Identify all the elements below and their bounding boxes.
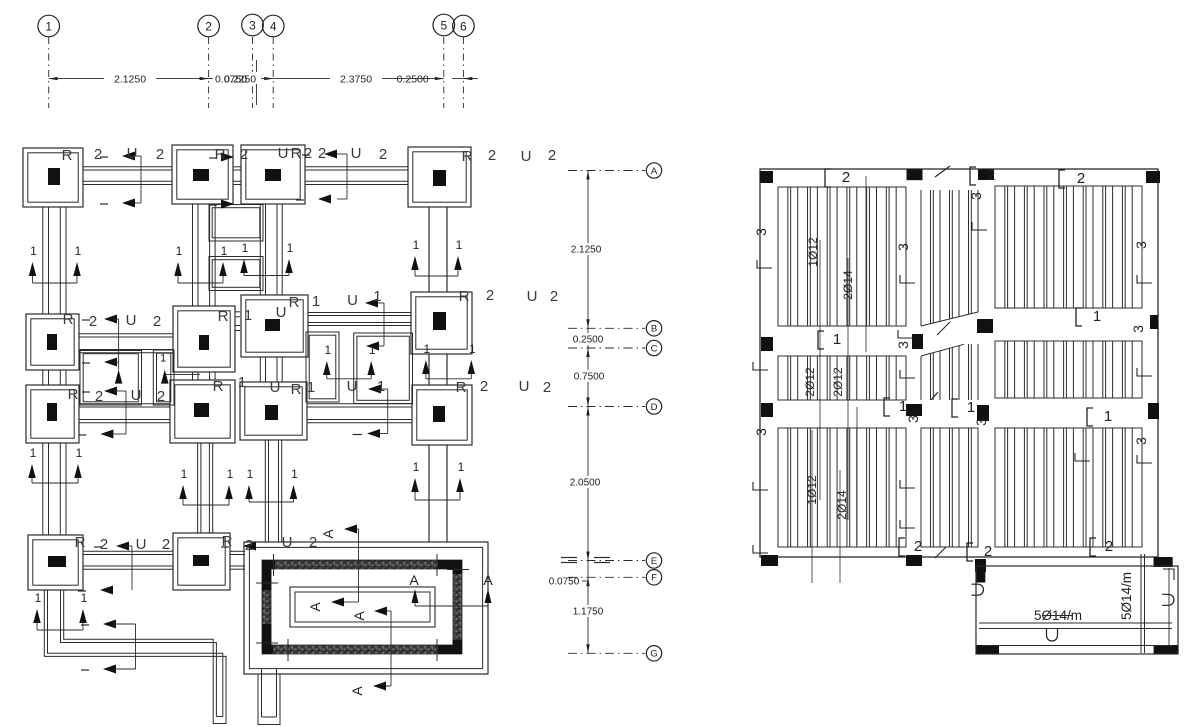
- svg-text:3: 3: [905, 415, 921, 423]
- dashed arrow B-D left: [82, 358, 118, 367]
- svg-text:5: 5: [440, 18, 447, 32]
- footing F14 (E-2): [173, 533, 230, 590]
- duct from footing F13 (L-shaped): [44, 590, 226, 724]
- svg-text:2: 2: [156, 146, 164, 163]
- section A line 1: [307, 525, 359, 612]
- svg-text:1: 1: [76, 446, 83, 460]
- svg-text:2Ø12: 2Ø12: [831, 367, 845, 397]
- section marks 1-1 D-E col1: [28, 446, 82, 483]
- svg-text:U: U: [136, 536, 147, 553]
- beam col2 A-B: [193, 204, 216, 306]
- svg-text:1: 1: [176, 244, 183, 258]
- svg-text:4: 4: [270, 19, 277, 33]
- svg-text:2: 2: [205, 19, 212, 33]
- section marks 1-1 D-E col2: [179, 467, 233, 505]
- svg-text:2: 2: [162, 536, 170, 553]
- svg-text:3: 3: [973, 418, 989, 426]
- section marks 1-1 below E col1: [33, 591, 87, 630]
- beam labels R/U left plan: [62, 145, 559, 554]
- footing F3 (A-3): [241, 145, 305, 204]
- column C12: [433, 406, 445, 422]
- column C13: [48, 556, 66, 567]
- slab panel P2 stair flight upper: [921, 190, 978, 326]
- svg-text:2: 2: [94, 146, 102, 163]
- svg-text:2: 2: [153, 313, 161, 330]
- column S-B2: [912, 334, 923, 349]
- svg-text:2: 2: [984, 543, 992, 560]
- section line 2 row A col3-4: [296, 150, 347, 204]
- slash marks: [931, 166, 950, 558]
- svg-text:2.0500: 2.0500: [570, 478, 601, 489]
- column C11: [265, 405, 278, 420]
- svg-text:U: U: [276, 304, 287, 321]
- slab panel P5 stair flight lower: [921, 344, 978, 400]
- column S-B4: [1150, 315, 1158, 329]
- section marks 1-1 A-B col2: [174, 244, 227, 283]
- svg-text:2: 2: [486, 287, 494, 304]
- svg-text:0.2250: 0.2250: [224, 74, 256, 86]
- svg-text:1: 1: [456, 238, 463, 252]
- svg-text:A: A: [409, 572, 419, 588]
- column C8: [433, 312, 446, 330]
- tank wall black corner segments: [262, 560, 271, 590]
- tank thick wall ring: [262, 560, 462, 654]
- svg-text:R: R: [218, 308, 229, 325]
- column C2: [193, 169, 209, 181]
- column C6: [199, 335, 209, 350]
- svg-text:R: R: [291, 381, 302, 398]
- footing F9 (D-1): [26, 385, 79, 443]
- footing F6 (B-2): [173, 306, 235, 372]
- svg-text:2: 2: [1105, 538, 1113, 555]
- beam col1 D-E: [43, 443, 66, 535]
- grid bubble C: [646, 340, 661, 355]
- beam box B-D span col1-2: [80, 351, 142, 406]
- svg-text:3: 3: [753, 428, 769, 436]
- svg-text:A: A: [351, 611, 367, 621]
- svg-text:R: R: [63, 311, 74, 328]
- svg-text:3: 3: [1133, 437, 1149, 445]
- svg-text:3: 3: [753, 228, 769, 236]
- slab panel P9 with rib hatch: [995, 428, 1142, 547]
- dimension text 2.0500: [566, 476, 606, 488]
- footing F2 (A-2): [172, 145, 233, 204]
- svg-text:1: 1: [377, 378, 385, 395]
- svg-text:1: 1: [1104, 408, 1112, 425]
- svg-text:B: B: [651, 324, 657, 335]
- svg-text:R: R: [459, 288, 470, 305]
- svg-text:2: 2: [914, 538, 922, 555]
- footing F10 (D-2): [170, 380, 235, 443]
- footing F13 (E-1): [28, 535, 83, 590]
- svg-text:1: 1: [247, 467, 254, 481]
- svg-text:2: 2: [304, 145, 312, 162]
- svg-text:U: U: [278, 145, 289, 162]
- beam box B-D span col3-4: [354, 333, 413, 404]
- svg-text:U: U: [347, 378, 358, 395]
- slab panel P1 with rib hatch: [778, 187, 906, 326]
- extension reinforcement lines: [979, 554, 1172, 653]
- footing F12 (D-5): [412, 385, 472, 445]
- footing F8 (B-5): [411, 292, 472, 354]
- svg-text:A: A: [320, 529, 336, 539]
- section A-A horizontal cut: [409, 572, 493, 606]
- section line 2 row B col1: [82, 315, 119, 370]
- svg-text:0.0750: 0.0750: [549, 577, 580, 588]
- column C14: [193, 555, 209, 566]
- column S-ext1: [976, 645, 999, 654]
- beam col4 D-tank: [429, 445, 447, 542]
- column S-D3: [977, 405, 989, 421]
- svg-text:1: 1: [424, 342, 431, 356]
- section line 1 row D col3 lower: [353, 385, 388, 439]
- footing F11 (D-3): [240, 382, 307, 440]
- svg-text:R: R: [289, 294, 300, 311]
- grid bubble 5: [433, 14, 455, 36]
- svg-text:3: 3: [895, 341, 911, 349]
- svg-text:U: U: [521, 148, 532, 165]
- svg-text:2: 2: [240, 146, 248, 163]
- svg-text:1: 1: [30, 244, 37, 258]
- grid bubble F: [646, 570, 661, 585]
- svg-text:R: R: [68, 386, 79, 403]
- svg-text:2: 2: [309, 534, 317, 551]
- dimension text 0.0750 / 0.2250 overlapped: [213, 72, 261, 84]
- svg-text:5Ø14/m: 5Ø14/m: [1119, 572, 1134, 620]
- column S-A1: [760, 171, 773, 183]
- rotated 3 labels: [753, 192, 1149, 445]
- svg-text:R: R: [456, 379, 467, 396]
- svg-text:3: 3: [1133, 241, 1149, 249]
- dimension text 0.7500: [570, 370, 608, 382]
- dimension text 2.3750: [330, 72, 382, 84]
- section marks 1-1 A-B col1: [29, 244, 82, 283]
- extension slab outline: [976, 566, 1178, 654]
- section line 2 row A col2 (right pointing arrows): [209, 153, 234, 209]
- grid bubble 3: [242, 14, 264, 36]
- column C9: [47, 403, 57, 421]
- svg-text:R: R: [215, 146, 226, 163]
- column C1: [48, 168, 60, 185]
- grid line F: [568, 576, 645, 578]
- section marks 1-1 B-D col4: [422, 342, 476, 379]
- svg-text:2: 2: [480, 378, 488, 395]
- svg-text:1: 1: [244, 307, 252, 324]
- footing F7 (B-3): [241, 295, 308, 357]
- beam col1 A-B: [43, 207, 66, 314]
- column S-ext2: [1154, 645, 1179, 654]
- beam col2 D-E: [198, 443, 213, 533]
- svg-text:1: 1: [238, 374, 246, 391]
- extension inner bottom line: [982, 645, 1172, 647]
- svg-text:1: 1: [899, 398, 907, 415]
- svg-text:2: 2: [245, 537, 253, 554]
- tank outer boundary: [244, 542, 488, 674]
- beam col4 A-B: [429, 207, 447, 292]
- footing F1 (A-1): [23, 148, 83, 207]
- bar leader lines: [812, 176, 866, 583]
- tank wall ticks: [273, 554, 275, 576]
- column S-D2: [906, 404, 922, 416]
- grid bubble B: [646, 321, 661, 336]
- dimension text 0.2500: [569, 333, 607, 345]
- section line 2 row A col1-2: [100, 152, 141, 208]
- beam E row 1-2: [83, 551, 173, 569]
- beam A row 1-2: [83, 167, 172, 185]
- dimension text 2.1250: [104, 72, 156, 84]
- beam B row 1-2: [79, 334, 173, 353]
- beam stub F6-F7: [235, 312, 240, 331]
- beam box B-D span col2-3b: [306, 332, 339, 402]
- slab rib labels with brackets: [818, 167, 1113, 561]
- beam col3 B-D: [260, 357, 282, 382]
- svg-text:1: 1: [181, 467, 188, 481]
- svg-text:R: R: [75, 534, 86, 551]
- grid bubble 2: [198, 15, 220, 37]
- svg-text:A: A: [349, 686, 365, 696]
- svg-text:A: A: [483, 572, 493, 588]
- svg-text:R: R: [222, 533, 233, 550]
- svg-text:R: R: [62, 147, 73, 164]
- svg-text:U: U: [127, 145, 138, 162]
- svg-text:2: 2: [379, 146, 387, 163]
- column S-B3: [977, 319, 993, 333]
- svg-text:D: D: [651, 402, 658, 413]
- svg-text:0.2500: 0.2500: [397, 74, 429, 86]
- beam box below grid 2-3 upper: [209, 205, 263, 242]
- slab panel P8 with rib hatch: [921, 428, 978, 547]
- column S-D1: [761, 403, 773, 417]
- svg-text:1: 1: [160, 353, 166, 365]
- footing F4 (A-5): [408, 147, 471, 207]
- column C5: [47, 334, 57, 350]
- svg-text:G: G: [650, 649, 657, 660]
- svg-text:1: 1: [45, 19, 52, 33]
- svg-text:2: 2: [95, 388, 103, 405]
- svg-text:1.1750: 1.1750: [573, 607, 604, 618]
- grid line D: [568, 406, 645, 408]
- section line 2 row E: [94, 542, 132, 591]
- slab panel P6 with rib hatch: [995, 341, 1142, 398]
- svg-text:2: 2: [1077, 170, 1085, 187]
- svg-text:U: U: [126, 312, 137, 329]
- svg-text:R: R: [462, 148, 473, 165]
- column S-extTL: [976, 559, 985, 583]
- svg-text:1: 1: [373, 288, 381, 305]
- svg-text:2.1250: 2.1250: [571, 245, 602, 256]
- svg-text:1: 1: [413, 238, 420, 252]
- tank inner basin: [290, 587, 435, 627]
- beam D row 3-4: [307, 404, 412, 423]
- svg-text:2.1250: 2.1250: [114, 74, 146, 86]
- svg-text:F: F: [651, 573, 657, 584]
- svg-text:1: 1: [967, 399, 975, 416]
- section marks 1-1 D-E col3: [245, 467, 298, 502]
- svg-text:A: A: [651, 166, 658, 177]
- svg-text:1: 1: [75, 244, 82, 258]
- section A line 2: [349, 607, 391, 696]
- svg-text:2: 2: [548, 147, 556, 164]
- svg-text:U: U: [347, 292, 358, 309]
- svg-text:2: 2: [543, 379, 551, 396]
- column C4: [433, 170, 446, 186]
- svg-text:0.7500: 0.7500: [574, 372, 605, 383]
- column S-E1: [761, 555, 778, 566]
- svg-text:2Ø14: 2Ø14: [841, 270, 855, 300]
- beam box B-D span narrow: [153, 350, 174, 405]
- dimension text 2.1250: [568, 243, 608, 255]
- svg-text:1: 1: [221, 244, 228, 258]
- svg-text:1: 1: [324, 343, 331, 357]
- svg-text:1: 1: [413, 460, 420, 474]
- column S-A3: [978, 170, 994, 181]
- top grid centerlines: [49, 37, 464, 108]
- column S-E2: [906, 555, 922, 566]
- svg-text:U: U: [282, 534, 293, 551]
- slab panel P4 with rib hatch: [778, 356, 906, 400]
- svg-text:1: 1: [833, 331, 841, 348]
- beam col1 B-D: [43, 370, 66, 385]
- extension bracket top right: [1163, 569, 1174, 580]
- section marks 1-1 A-B col4: [411, 238, 462, 276]
- section marks 1-1 A-B col3: [240, 241, 293, 276]
- svg-text:2: 2: [89, 313, 97, 330]
- double tick marks at grid E: [561, 557, 577, 559]
- slab plan outer boundary: [760, 169, 1158, 557]
- beam E row 2-tank: [230, 551, 245, 569]
- beam D row 1-2: [79, 404, 170, 423]
- dashed arrow row D col1: [82, 387, 126, 396]
- svg-text:1: 1: [227, 467, 234, 481]
- svg-text:2: 2: [157, 388, 165, 405]
- svg-text:1: 1: [1093, 308, 1101, 325]
- section line 1 row B col3 upper: [365, 299, 384, 351]
- svg-text:2.3750: 2.3750: [340, 74, 372, 86]
- svg-text:1: 1: [469, 342, 476, 356]
- top dimension line: [49, 77, 478, 80]
- section marks 1-1 D-E col4: [411, 460, 464, 500]
- column S-E3: [975, 559, 986, 572]
- svg-text:2: 2: [488, 147, 496, 164]
- dashed arrows below row E: [78, 586, 113, 595]
- column S-A4: [1146, 171, 1160, 183]
- column S-extTR2: [1154, 559, 1173, 567]
- svg-text:1Ø12: 1Ø12: [806, 237, 820, 267]
- svg-text:E: E: [651, 556, 657, 567]
- column S-D4: [1148, 403, 1159, 419]
- bar end hook marks: [753, 222, 1152, 553]
- svg-text:U: U: [131, 387, 142, 404]
- grid bubble 4: [262, 15, 284, 37]
- beam col4 B-D: [429, 354, 447, 385]
- column S-A2: [907, 169, 923, 180]
- svg-text:U: U: [270, 379, 281, 396]
- single section arrows B-D span: [115, 370, 123, 384]
- svg-text:1: 1: [30, 446, 37, 460]
- grid bubble D: [646, 399, 661, 414]
- svg-text:2: 2: [987, 167, 995, 184]
- svg-text:2: 2: [318, 145, 326, 162]
- beam B row 3-4: [308, 313, 411, 326]
- svg-text:1: 1: [35, 591, 42, 605]
- svg-text:1: 1: [458, 460, 465, 474]
- svg-text:R: R: [291, 145, 302, 162]
- svg-text:A: A: [307, 602, 323, 612]
- svg-text:2: 2: [842, 169, 850, 186]
- svg-text:1: 1: [307, 379, 315, 396]
- column C10: [194, 403, 209, 417]
- svg-text:1: 1: [291, 467, 298, 481]
- vertical dimension line for foundation plan: [586, 171, 589, 654]
- beam col3 D-tank: [265, 440, 281, 542]
- svg-text:3: 3: [249, 18, 256, 32]
- column C3: [265, 169, 281, 181]
- grid line E: [568, 560, 645, 562]
- grid line G: [568, 652, 645, 654]
- grid bubble 1: [38, 15, 60, 37]
- column C7: [265, 319, 280, 331]
- beam col3 A-B: [260, 204, 282, 295]
- dimension text 1.1750: [569, 605, 609, 617]
- slab panel P3 with rib hatch: [995, 186, 1142, 308]
- grid bubble E: [646, 553, 661, 568]
- column S-E4: [1154, 557, 1173, 567]
- beam A row 3-4: [305, 167, 408, 185]
- duct below tank: [258, 669, 280, 725]
- svg-text:6: 6: [460, 19, 467, 33]
- grid bubble A: [646, 163, 661, 178]
- grid line B: [568, 327, 645, 329]
- grid bubble 6: [453, 15, 475, 37]
- svg-text:1: 1: [81, 591, 88, 605]
- svg-text:3: 3: [1130, 325, 1146, 333]
- grid bubble G: [646, 646, 661, 661]
- U hooks extension: [972, 584, 1175, 641]
- svg-text:U: U: [519, 378, 530, 395]
- beam col2 B-D: [193, 372, 216, 380]
- svg-text:1: 1: [287, 241, 294, 255]
- svg-text:1: 1: [312, 293, 320, 310]
- svg-text:2: 2: [550, 288, 558, 305]
- section line 2 row E col2 (to tank): [221, 542, 256, 551]
- footing F5 (B-1): [26, 314, 79, 370]
- section line 2 row D col1 drop: [78, 391, 126, 439]
- beam box below grid 2-3 lower: [209, 257, 263, 291]
- slab panel P7 with rib hatch: [778, 428, 906, 547]
- svg-text:0.2500: 0.2500: [573, 335, 604, 346]
- svg-text:2Ø14: 2Ø14: [835, 490, 849, 520]
- svg-text:1: 1: [242, 241, 249, 255]
- svg-text:1Ø12: 1Ø12: [805, 475, 819, 505]
- svg-text:U: U: [351, 145, 362, 162]
- svg-text:2Ø12: 2Ø12: [803, 367, 817, 397]
- grid line C: [568, 347, 645, 349]
- section marks 1-1 B-D col3: [323, 343, 376, 379]
- column S-B1: [761, 337, 773, 351]
- svg-text:3: 3: [895, 243, 911, 251]
- svg-text:R: R: [213, 378, 224, 395]
- beam A row 2-3: [233, 167, 241, 185]
- svg-text:3: 3: [968, 192, 984, 200]
- svg-text:2: 2: [100, 536, 108, 553]
- grid line A: [568, 170, 645, 172]
- svg-text:U: U: [527, 288, 538, 305]
- svg-text:C: C: [651, 343, 658, 354]
